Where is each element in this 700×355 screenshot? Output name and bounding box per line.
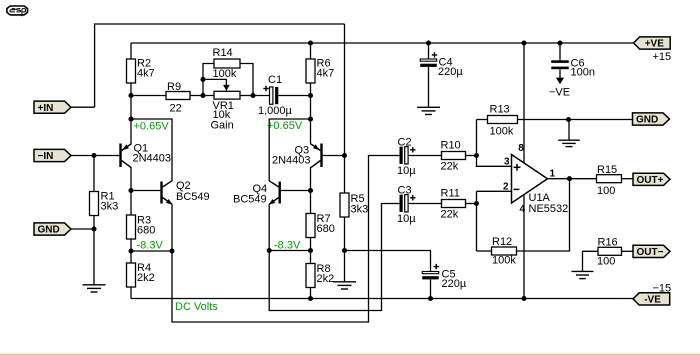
svg-text:R13: R13 (490, 104, 510, 116)
output tag OUT- (633, 245, 670, 258)
pin number 1 (550, 169, 556, 180)
capacitor C6 100n (551, 60, 569, 69)
svg-text:3: 3 (504, 157, 510, 168)
svg-text:100: 100 (597, 256, 615, 268)
svg-text:10µ: 10µ (397, 213, 416, 225)
wire R1 bottom to GND node (93, 216, 95, 230)
svg-text:GND: GND (636, 115, 658, 126)
C1 plus sign (263, 86, 268, 91)
wire R16 to OUT- tag (622, 250, 634, 252)
svg-text:3k3: 3k3 (351, 204, 369, 216)
svg-text:-8.3V: -8.3V (274, 240, 301, 252)
capacitor C3 10u (400, 195, 409, 212)
wire node H to Q4 emitter (269, 250, 310, 252)
wire node E to Q2 base (131, 190, 160, 192)
svg-text:22k: 22k (441, 161, 459, 173)
wire node F to Q4 base (281, 190, 311, 192)
svg-text:R11: R11 (441, 188, 460, 200)
junction pin4 / -VE rail (521, 296, 526, 301)
wire R5 bottom (344, 217, 346, 251)
node F junction Q3 collector / Q4 base / R7 (308, 188, 313, 193)
wire R15 to OUT+ tag (622, 178, 634, 180)
resistor R1 3k3 (90, 191, 119, 216)
junction -IN / R1 (91, 153, 96, 158)
svg-text:100: 100 (597, 185, 615, 197)
wire +IN riser and top rail to Q3 base column (95, 24, 345, 107)
svg-text:Gain: Gain (211, 120, 234, 132)
svg-text:R16: R16 (598, 237, 618, 249)
junction C5 / -VE rail (428, 296, 433, 301)
svg-text:100k: 100k (492, 255, 516, 267)
wire pin 4 supply (523, 194, 525, 298)
C2 plus sign (410, 147, 415, 152)
transistor Q2 BC549 (160, 180, 209, 205)
wire node G to Q2 emitter (131, 250, 172, 252)
wire +IN tag to riser (71, 106, 95, 108)
wire R5 top (344, 156, 346, 194)
resistor R11 22k (441, 188, 466, 221)
wire C2 to R10 (408, 155, 441, 157)
resistor R15 100 (597, 164, 622, 197)
wire Q2 collector to node B link (131, 119, 172, 181)
wire pin2 node column (476, 191, 478, 251)
power tag -VE (633, 293, 670, 306)
wire R6 bottom to node C (310, 83, 312, 96)
transistor Q1 2N4403 (119, 143, 171, 168)
svg-text:−IN: −IN (38, 151, 54, 162)
node E junction Q1 collector / Q2 base / R3 (128, 188, 133, 193)
svg-text:100n: 100n (571, 67, 595, 79)
wire R3 bottom (130, 239, 132, 251)
wire +VE rail (131, 42, 634, 44)
wire R8 top (310, 251, 312, 264)
wire R12 right to output (517, 179, 570, 251)
wire Q4 emitter down (268, 204, 270, 251)
label -VE under C6 (549, 87, 570, 99)
wire R9 to VR1 left node (190, 95, 214, 97)
input tag GND (34, 223, 71, 236)
wire C3 to R11 (408, 203, 441, 205)
wire VR1 right to C1 (253, 95, 270, 97)
input tag -IN (34, 149, 71, 162)
node B junction Q1 emitter (128, 116, 133, 121)
wire pin2 column (477, 190, 512, 192)
capacitor C2 10u (400, 147, 409, 164)
resistor R2 4k7 (127, 58, 155, 84)
power tag +VE (634, 37, 671, 50)
wire R4 top (130, 251, 132, 263)
svg-text:OUT−: OUT− (637, 247, 664, 258)
C3 plus sign (410, 195, 415, 200)
svg-text:680: 680 (137, 225, 155, 237)
wire Q1 collector down (130, 167, 132, 191)
label -8.3V right (274, 240, 301, 252)
svg-text:4k7: 4k7 (137, 68, 155, 80)
capacitor C4 220u (420, 59, 437, 67)
decorative bottom strip (0, 353, 700, 355)
svg-text:−15: −15 (653, 283, 672, 295)
wire node C to node D (310, 96, 312, 120)
wire Q1 emitter to node B (130, 119, 132, 145)
svg-text:680: 680 (317, 223, 335, 235)
pin number 8 (518, 143, 524, 154)
capacitor C5 220u (422, 272, 439, 280)
wire R14 left to VR1 left (203, 64, 214, 96)
svg-text:2k2: 2k2 (317, 273, 335, 285)
potentiometer VR1 10k Gain (211, 91, 241, 131)
wire R12 left stub (477, 250, 492, 252)
wire C6 bottom (559, 69, 561, 78)
svg-text:220µ: 220µ (442, 278, 467, 290)
transistor Q4 BC549 (233, 181, 281, 206)
svg-text:+IN: +IN (38, 103, 54, 114)
junction output node (567, 176, 572, 181)
resistor R9 22 (166, 81, 190, 115)
node A junction R2/R9 (128, 93, 133, 98)
VR1 wiper arrow (223, 85, 230, 91)
pin number 2 (503, 181, 509, 192)
wire -IN to Q1 base (71, 155, 120, 157)
output tag OUT+ (633, 173, 670, 186)
label C5 (442, 269, 456, 281)
label C4 value (438, 66, 463, 78)
node D junction Q3 emitter (308, 116, 313, 121)
svg-text:+VE: +VE (645, 39, 665, 50)
svg-text:R10: R10 (441, 140, 461, 152)
wire Q3 base (323, 155, 345, 157)
svg-text:100k: 100k (213, 68, 237, 80)
svg-text:+0.65V: +0.65V (134, 121, 170, 133)
svg-text:4k7: 4k7 (317, 68, 335, 80)
label C3 value (397, 213, 416, 225)
label C2 value (397, 165, 416, 177)
svg-text:OUT+: OUT+ (637, 175, 664, 186)
wire Q4 collector to node D link (269, 119, 310, 181)
label +15 (653, 51, 672, 63)
svg-text:2N4403: 2N4403 (272, 155, 311, 167)
wire R7 bottom (310, 238, 312, 251)
node C junction C1/R6 (308, 93, 313, 98)
junction ground tap (566, 117, 571, 122)
wire node I to ground (344, 251, 346, 282)
svg-text:10µ: 10µ (397, 165, 416, 177)
wire Q3 collector down (310, 167, 312, 191)
wire C6 top (559, 43, 561, 60)
junction VR1 wiper tap (200, 77, 205, 82)
wire R2 top (130, 43, 132, 59)
junction Q4 emitter node (267, 248, 272, 253)
label +0.65V left (134, 121, 170, 133)
wire R8 bottom to -VE rail (310, 288, 312, 299)
ESP logo (7, 6, 28, 16)
wire R2 bottom to node A (130, 83, 132, 96)
label C5 value (442, 278, 467, 290)
C4 plus sign (432, 52, 437, 57)
svg-text:-8.3V: -8.3V (137, 240, 164, 252)
resistor R6 4k7 (306, 58, 334, 84)
wire C4 bottom to ground (428, 67, 430, 107)
svg-text:R14: R14 (213, 47, 233, 59)
wire -VE rail (131, 298, 633, 300)
ground G4 signal ground (558, 140, 580, 146)
wire GND node to ground (93, 229, 95, 285)
junction C4 on +VE rail (426, 40, 431, 45)
wire R1 top (93, 156, 95, 192)
label C6 (571, 58, 585, 70)
pin number 3 (504, 157, 510, 168)
wire R13 left stub (477, 119, 488, 121)
svg-text:NE5532: NE5532 (529, 203, 569, 215)
wire R3 top (130, 191, 132, 216)
label C2 (398, 137, 412, 149)
resistor R14 100k (213, 47, 241, 80)
resistor R7 680 (306, 213, 335, 238)
input tag +IN (34, 101, 71, 114)
wire R6 top (310, 43, 312, 59)
node I junction R5 / C5 / ground (342, 248, 347, 253)
transistor Q3 2N4403 (272, 144, 323, 168)
wire GND tag to node (71, 228, 94, 230)
svg-text:−VE: −VE (549, 87, 570, 99)
svg-text:220µ: 220µ (438, 66, 463, 78)
power tag GND (633, 113, 670, 126)
junction pin8 supply on +VE rail (521, 40, 526, 45)
wire R16 ground leg (583, 251, 599, 271)
svg-text:R9: R9 (167, 81, 181, 93)
wire Q3 emitter to node D (310, 119, 312, 145)
junction Q2 emitter node (169, 248, 174, 253)
wire R13 to GND tag (518, 119, 633, 121)
svg-text:C1: C1 (268, 74, 282, 86)
svg-text:22: 22 (170, 103, 182, 115)
wire pin3 column (477, 120, 512, 167)
wire +IN column down to Q3 base node (344, 24, 346, 156)
junction R11 / R12 / pin2 (474, 201, 479, 206)
capacitor C1 1000u (270, 87, 279, 104)
label +0.65V right (267, 120, 303, 132)
junction VR1 left node (200, 93, 205, 98)
svg-text:1: 1 (550, 169, 556, 180)
ground G5 under R16 (572, 271, 594, 278)
svg-text:BC549: BC549 (176, 191, 210, 203)
label C3 (398, 185, 412, 197)
svg-text:3k3: 3k3 (101, 201, 119, 213)
svg-text:+15: +15 (653, 51, 672, 63)
C5 plus sign (434, 264, 439, 269)
wire C4 top (428, 43, 430, 59)
wire R7 top (310, 191, 312, 214)
wire op-amp output (548, 178, 597, 180)
junction GND / R1 (91, 226, 96, 231)
svg-text:BC549: BC549 (233, 194, 267, 206)
svg-text:GND: GND (38, 225, 60, 236)
ground G3 under C4 (417, 107, 440, 114)
wire ground tap down (568, 120, 570, 141)
resistor R12 100k (492, 236, 517, 267)
wire VR1 wiper link (203, 79, 226, 90)
svg-text:-VE: -VE (644, 295, 661, 306)
junction Q3 base / +IN / R5 (342, 153, 347, 158)
label C4 (439, 57, 453, 69)
svg-text:1,000µ: 1,000µ (258, 105, 293, 117)
svg-text:22k: 22k (441, 209, 459, 221)
resistor R8 2k2 (306, 263, 334, 288)
svg-text:C3: C3 (398, 185, 412, 197)
node H junction -8.3V right (308, 248, 313, 253)
label C1 value (258, 105, 293, 117)
wire C1 to node C (279, 95, 311, 97)
resistor R13 100k (488, 104, 518, 138)
wire node A down to node B (130, 96, 132, 120)
wire R11 to pin2 node (466, 203, 477, 205)
svg-text:R15: R15 (597, 164, 617, 176)
svg-text:2N4403: 2N4403 (133, 153, 172, 165)
node G junction -8.3V left (128, 248, 133, 253)
svg-text:R12: R12 (492, 236, 512, 248)
resistor R5 3k3 (340, 193, 368, 217)
wire R10 to pin3 node (466, 155, 477, 157)
label C1 (268, 74, 282, 86)
label -15 (653, 283, 672, 295)
svg-text:+0.65V: +0.65V (267, 120, 303, 132)
wire pin 8 supply (523, 43, 525, 163)
wire right signal route to C3 (269, 204, 399, 311)
junction R6 on +VE rail (308, 40, 313, 45)
label C6 value (571, 67, 595, 79)
wire R14 right to VR1 right (240, 64, 253, 96)
svg-text:DC Volts: DC Volts (175, 301, 218, 313)
wire Q2 emitter down (171, 204, 173, 251)
resistor R16 100 (597, 237, 622, 268)
resistor R3 680 (127, 215, 156, 240)
wire left signal route to C2 (172, 156, 400, 323)
resistor R10 22k (441, 140, 466, 173)
-VE arrow under C6 (556, 78, 564, 85)
op-amp U1A NE5532 (512, 155, 569, 216)
ground G1 input (83, 285, 106, 292)
junction VR1 right node (250, 93, 255, 98)
svg-text:2k2: 2k2 (137, 272, 155, 284)
svg-text:100k: 100k (490, 126, 514, 138)
ground G2 under R5 (333, 282, 356, 289)
wire node A to R9 (131, 95, 166, 97)
svg-text:2: 2 (503, 181, 509, 192)
junction C6 on +VE rail (557, 40, 562, 45)
wire R4 bottom to -VE rail (130, 287, 132, 299)
wire VR1 right stub (240, 95, 253, 97)
resistor R4 2k2 (127, 262, 155, 287)
wire C5 bottom to -VE rail (430, 279, 432, 298)
label DC Volts (175, 301, 218, 313)
pin number 4 (520, 204, 526, 215)
junction R8 / -VE rail (308, 296, 313, 301)
junction R10 / R13 / pin3 (474, 153, 479, 158)
wire node I to C5 (345, 251, 431, 272)
svg-text:C2: C2 (398, 137, 412, 149)
label -8.3V left (137, 240, 164, 252)
